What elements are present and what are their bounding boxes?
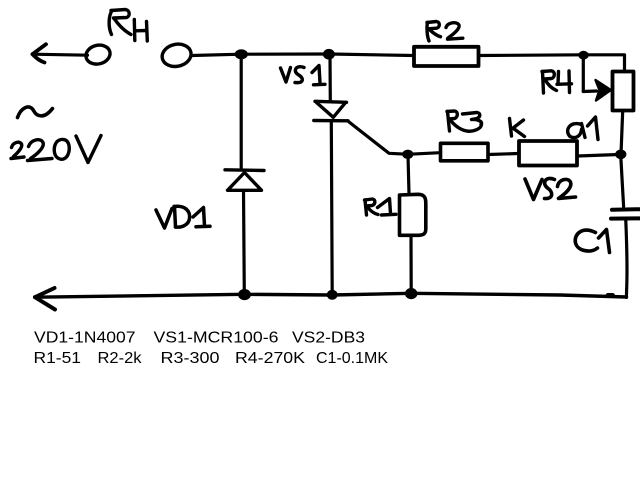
- wire: R3 to VS2: [489, 154, 519, 155]
- wire: VS2 to C1 junction: [578, 155, 620, 157]
- diode VD1: [225, 170, 264, 191]
- thyristor VS1: [314, 101, 348, 121]
- terminal: load terminal right ellipse: [160, 42, 193, 70]
- arrow: AC input top-left: [33, 44, 88, 62]
- label ~ (AC) handwritten: [18, 107, 53, 118]
- wire: VS1 cathode down to bottom rail: [330, 122, 334, 295]
- svg-text:R2-2k: R2-2k: [98, 350, 143, 367]
- svg-text:R1-51: R1-51: [34, 350, 82, 367]
- label a1 (anode pin) handwritten: [568, 117, 598, 140]
- potentiometer R4 body: [613, 72, 634, 111]
- terminal: load terminal left ellipse: [84, 43, 112, 67]
- diac VS2 body: [519, 141, 577, 166]
- node: junction top-left (VD1 tap): [235, 49, 248, 59]
- node: junction bottom VD1: [238, 289, 251, 300]
- node: gate junction: [402, 150, 413, 159]
- label R4 handwritten: [542, 71, 572, 93]
- svg-text:R3-300: R3-300: [161, 350, 220, 367]
- node: junction at R4 wiper tap: [578, 51, 588, 60]
- wire: top rail from load terminal to R2: [192, 54, 413, 56]
- node: junction bottom R1: [405, 288, 417, 299]
- wire: junction down to C1: [621, 155, 624, 207]
- label R_H (load) handwritten: [109, 10, 147, 42]
- label R2 handwritten: [427, 22, 463, 42]
- resistor R1: [400, 194, 426, 235]
- node: junction top-middle (VS1 tap): [323, 49, 335, 60]
- wire: gate junction down to R1: [408, 155, 409, 194]
- wire: junction up to R4 bottom: [621, 111, 623, 154]
- wire: R2 right to R4 top corner: [479, 55, 625, 72]
- svg-text:C1-0.1MK: C1-0.1MK: [316, 350, 388, 367]
- label VS2 handwritten: [525, 178, 576, 199]
- wire: top junction down to VD1: [240, 55, 243, 169]
- svg-text:VS2-DB3: VS2-DB3: [292, 330, 365, 347]
- potentiometer R4 wiper wire and arrow: [583, 56, 611, 101]
- svg-text:VS1-MCR100-6: VS1-MCR100-6: [154, 330, 279, 347]
- svg-text:R4-270K: R4-270K: [235, 350, 305, 367]
- node: junction VS2/R4/C1: [615, 150, 626, 160]
- label VD1 handwritten: [156, 206, 210, 228]
- wire: junction down to VS1 anode: [328, 55, 331, 101]
- text: parts list line 2: [34, 350, 389, 367]
- node: junction bottom VS1: [327, 290, 338, 300]
- text: parts list line 1: [34, 330, 365, 347]
- label R3 handwritten: [447, 111, 482, 131]
- label K (cathode pin) handwritten: [510, 119, 525, 137]
- resistor R2: [414, 47, 479, 66]
- wire: R1 down to bottom rail: [409, 236, 412, 294]
- label C1 handwritten: [575, 230, 609, 253]
- label R1 handwritten: [365, 199, 397, 216]
- label VS1 handwritten: [281, 66, 326, 85]
- svg-text:VD1-1N4007: VD1-1N4007: [34, 330, 136, 347]
- wire: C1 down to bottom rail: [626, 221, 627, 298]
- wire: bottom rail: [35, 293, 627, 297]
- wire: gate junction to R3: [408, 153, 441, 155]
- wire: VD1 down to bottom rail: [242, 191, 246, 294]
- capacitor C1: [611, 209, 640, 218]
- wire: VS1 gate to junction: [348, 121, 407, 154]
- arrow: AC return bottom-left: [35, 288, 55, 310]
- label 220V handwritten: [11, 136, 101, 163]
- resistor R3: [441, 143, 489, 161]
